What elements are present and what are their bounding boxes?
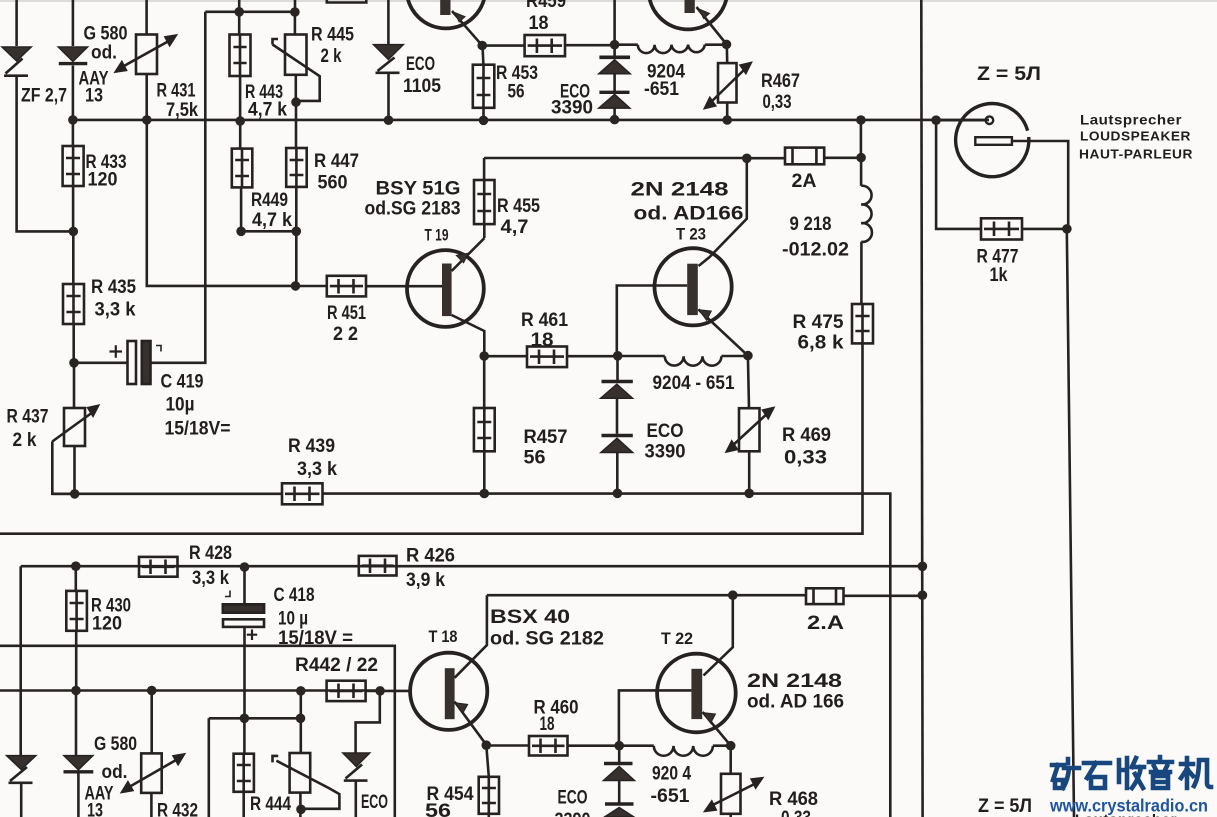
diode ECO3390d mid	[601, 436, 633, 453]
resistor R443	[230, 35, 251, 77]
svg-text:10µ: 10µ	[166, 395, 195, 416]
potentiometer R437	[52, 406, 98, 446]
transistor T19 circle	[407, 250, 484, 327]
svg-text:-651: -651	[644, 79, 679, 100]
svg-text:T 23: T 23	[676, 225, 706, 244]
capacitor C419	[110, 341, 162, 384]
svg-text:T 22: T 22	[661, 629, 693, 648]
svg-text:4,7 k: 4,7 k	[248, 100, 287, 121]
resistor R457	[474, 408, 495, 451]
node dots emitter bus y=45	[477, 41, 487, 51]
svg-text:56: 56	[425, 801, 451, 817]
diode ECO1105 wire top	[387, 0, 390, 44]
diode ECO3390c mid	[601, 382, 633, 399]
svg-text:G 580: G 580	[94, 734, 137, 755]
wire R444 column rail3 to wireA to box	[299, 691, 302, 753]
svg-text:ECO: ECO	[406, 54, 435, 75]
svg-text:18: 18	[529, 13, 549, 34]
svg-text:6,8 k: 6,8 k	[798, 333, 844, 354]
svg-text:18: 18	[531, 330, 554, 351]
node dot R477 right	[1062, 224, 1072, 234]
svg-text:R 428: R 428	[189, 543, 232, 564]
wire T18 collector bus y=595.2	[487, 594, 806, 597]
svg-text:R449: R449	[251, 190, 288, 211]
wire node to R437	[73, 363, 76, 408]
transistor T23 bar	[687, 264, 698, 315]
svg-text:od.: od.	[102, 762, 128, 783]
svg-text:HAUT-PARLEUR: HAUT-PARLEUR	[1079, 147, 1193, 162]
svg-text:R 447: R 447	[314, 151, 359, 172]
svg-text:0,33: 0,33	[781, 808, 811, 817]
transistor T19 emitter lead (top, arrow out)	[452, 238, 485, 271]
wire G580 column top	[72, 0, 75, 46]
svg-text:R457: R457	[524, 427, 568, 448]
svg-text:R 469: R 469	[782, 425, 831, 446]
wire node to R435	[72, 231, 75, 284]
wire R433 to node	[72, 186, 75, 231]
wire R461 node down to diode	[616, 356, 619, 381]
resistor R475	[852, 304, 873, 343]
wire R435 to C419 node	[72, 324, 75, 363]
svg-text:C 419: C 419	[161, 372, 204, 393]
wire 9218 column: rail to fuse node	[860, 120, 863, 158]
wire speaker rail right segment to terminal	[936, 119, 986, 122]
wire C418 col below wireA into R446	[243, 718, 246, 753]
resistor R446 (unlabeled)	[234, 754, 254, 792]
svg-text:920 4: 920 4	[652, 764, 691, 785]
wire R444 below box to bottom edge	[299, 793, 302, 817]
node dots lower rail3	[71, 686, 81, 696]
wire R432 to bottom edge	[150, 793, 153, 817]
potentiometer R444	[273, 753, 340, 809]
svg-text:R 426: R 426	[406, 546, 455, 567]
node dot C419	[69, 358, 79, 368]
svg-text:2N 2148: 2N 2148	[631, 180, 729, 201]
svg-text:2 k: 2 k	[321, 46, 342, 67]
wire R454 to bottom edge	[487, 814, 490, 817]
svg-text:18: 18	[540, 714, 555, 735]
wire R457 to bottom rail	[483, 451, 486, 493]
svg-text:1105: 1105	[403, 76, 441, 97]
resistor R454	[479, 777, 499, 814]
transistor T23 collector lead from 2A node	[699, 158, 747, 266]
svg-text:560: 560	[318, 173, 348, 194]
transistor T19 collector lead (bottom)	[452, 315, 485, 356]
transistor T17 emitter lead with arrow	[452, 11, 482, 45]
wire mid diodes to bottom rail	[616, 453, 619, 494]
wire R459 to ECO3390 node	[565, 44, 615, 47]
wire speaker rail y=120	[73, 119, 989, 122]
transistor T17 (cut at top): circle	[407, 0, 486, 28]
svg-text:4,7 k: 4,7 k	[252, 210, 292, 231]
wire fuse-node to coil, coil 9218	[861, 158, 872, 304]
node dots collector bus	[728, 590, 738, 600]
diode ECO3390e lower	[604, 764, 635, 781]
wire C419 feed column	[151, 12, 206, 363]
resistor R433	[63, 146, 84, 186]
wire ECO1105 to rail	[387, 73, 390, 120]
capacitor C418	[223, 567, 264, 640]
wire ZF2.7 column top	[15, 0, 18, 46]
node dots emitter bus lower	[482, 740, 492, 750]
wire corner down to R455	[483, 158, 486, 180]
wire R477 left feed	[936, 120, 981, 229]
wire long right vertical below R477 node	[1067, 229, 1074, 817]
svg-text:C 418: C 418	[274, 585, 315, 606]
wire rail to R449	[239, 121, 242, 148]
wire G580 to rail	[72, 66, 75, 121]
svg-text:od.: od.	[91, 43, 117, 64]
wire R454 column	[486, 745, 489, 777]
transistor T22 base wire L down to R460 node	[619, 690, 692, 745]
svg-text:R 444: R 444	[250, 794, 291, 815]
svg-text:-012.02: -012.02	[782, 240, 849, 261]
svg-text:G 580: G 580	[84, 24, 128, 45]
svg-text:R459: R459	[526, 0, 566, 12]
svg-text:ZF 2,7: ZF 2,7	[21, 86, 67, 107]
svg-text:R 435: R 435	[91, 277, 136, 298]
wire lower rail1 y=566	[21, 565, 923, 568]
resistor R459	[525, 35, 565, 56]
svg-text:3390: 3390	[551, 98, 593, 119]
wire R430 column from rail1	[75, 566, 78, 591]
wire lower zener to bottom edge	[20, 783, 23, 817]
potentiometer R467	[705, 63, 750, 108]
resistor R442	[327, 681, 366, 701]
glyph shou	[1119, 758, 1144, 788]
svg-text:15/18V =: 15/18V =	[278, 628, 353, 649]
transistor T18 collector lead	[455, 595, 487, 678]
wire R446 to bottom edge	[242, 792, 245, 817]
resistor R451	[327, 276, 366, 297]
resistor R460	[529, 736, 568, 756]
transistor T19 bar	[442, 264, 452, 317]
zener diode ECO1105	[374, 45, 404, 73]
inductor 9204-651 top	[615, 45, 727, 53]
node dot T23 collector	[742, 154, 752, 164]
glyph kuang	[1052, 759, 1079, 788]
resistor R430	[66, 591, 87, 631]
wire between ECO3390 diodes	[613, 74, 616, 92]
svg-text:3,3 k: 3,3 k	[192, 568, 229, 589]
wire R443 column top	[238, 0, 241, 35]
wire speaker bar to right drop	[1012, 141, 1068, 229]
wire between lower diodes	[618, 781, 621, 803]
resistor R453	[473, 65, 495, 108]
inductor 9204-651 lower	[619, 746, 731, 756]
wire T18 base node down and left to ECO bias diode	[356, 691, 380, 753]
svg-text:9204 - 651: 9204 - 651	[653, 373, 735, 394]
svg-text:4,7: 4,7	[501, 217, 529, 238]
diode G580 lower	[64, 756, 94, 772]
svg-text:56: 56	[508, 82, 525, 103]
inductor 9204-651 mid	[618, 356, 748, 366]
wire ECO3390 node top	[618, 746, 621, 763]
wire ECO3390 to rail	[613, 108, 616, 119]
diode ECO3390b upper	[599, 92, 630, 108]
transistor T22 circle	[657, 654, 736, 733]
wire R445-wiper node down to R447	[295, 102, 298, 148]
transistor T19 base wire from R451	[366, 285, 442, 288]
potentiometer R445	[273, 35, 320, 101]
svg-text:2N 2148: 2N 2148	[747, 671, 842, 692]
wire R432 column rail3 down	[150, 691, 153, 754]
svg-text:3,3 k: 3,3 k	[95, 300, 136, 321]
wire T22 emitter node down to R468	[729, 746, 732, 774]
wire R455 to T19 collector corner	[483, 224, 486, 238]
svg-text:Z = 5Л: Z = 5Л	[978, 796, 1032, 817]
svg-text:od. AD 166: od. AD 166	[747, 692, 844, 713]
transistor T23 circle	[655, 248, 732, 325]
loudspeaker symbol	[956, 104, 1029, 177]
zener diode ECO (lower bias, near R444)	[343, 753, 370, 781]
node dots y=231	[69, 227, 79, 237]
svg-text:2.A: 2.A	[807, 613, 844, 634]
resistor R439	[282, 483, 323, 504]
zener ZF2,7	[2, 47, 31, 76]
svg-text:R 432: R 432	[157, 801, 198, 817]
fuse 2A lower	[806, 588, 922, 604]
svg-text:1k: 1k	[990, 265, 1008, 286]
svg-text:LOUDSPEAKER: LOUDSPEAKER	[1080, 129, 1191, 144]
transistor T18 bar	[445, 668, 455, 719]
node dots top bus	[234, 7, 244, 17]
wire T17 node to R459	[482, 44, 525, 47]
potentiometer R431	[116, 35, 176, 75]
wire R445 main below box	[294, 75, 297, 102]
svg-text:3,3 k: 3,3 k	[297, 459, 337, 480]
transistor T21 bar	[685, 0, 695, 13]
svg-text:120: 120	[92, 614, 122, 635]
resistor R455	[474, 180, 495, 224]
wire R437 to bottom rail	[73, 446, 76, 494]
svg-text:3390: 3390	[555, 810, 591, 817]
node dot fuse right	[856, 153, 866, 163]
svg-text:od.SG 2183: od.SG 2183	[365, 199, 461, 220]
wire R442 right to T18 base node, base wire	[366, 690, 411, 693]
svg-text:ECO: ECO	[647, 421, 684, 442]
glyph shi	[1084, 763, 1110, 788]
watermark CJK (vector strokes: 矿石收音机)	[1052, 757, 1211, 788]
transistor T22 emitter lead (arrow toward bar)	[703, 712, 731, 746]
node dot R445 wiper	[291, 97, 301, 107]
svg-text:13: 13	[85, 86, 103, 107]
potentiometer R469	[727, 408, 773, 451]
wire T21 node down to R467	[725, 44, 728, 63]
wire T23emitter node down to R469	[748, 356, 749, 409]
svg-text:od. AD166: od. AD166	[634, 204, 744, 225]
potentiometer R468	[706, 774, 762, 814]
wire R437 wiper down to rail start	[52, 442, 75, 494]
transistor T18 emitter lead (arrow toward bar)	[455, 702, 487, 745]
svg-text:R 437: R 437	[7, 407, 49, 428]
wire ZF2.7 bottom L to node	[17, 76, 69, 231]
transistor T23 base wire L down to R461 node	[617, 286, 687, 356]
wire lower rail2 y=645.8	[0, 646, 395, 817]
potentiometer R432	[122, 753, 183, 793]
svg-text:R 451: R 451	[327, 303, 366, 324]
svg-text:R 468: R 468	[769, 789, 818, 810]
wire from top edge down to R459 node	[613, 0, 616, 57]
wire C418 down to wireA	[243, 627, 246, 718]
wire ECO bias diode to bottom edge	[354, 781, 357, 817]
svg-text:R 461: R 461	[521, 310, 568, 331]
fuse 2A upper	[747, 148, 861, 165]
wire bottom rail of upper amp	[52, 494, 890, 817]
svg-text:T 18: T 18	[429, 627, 458, 646]
wire R445 column top	[294, 0, 297, 35]
svg-text:9 218: 9 218	[790, 214, 832, 235]
wire fuse node down to T22 collector	[704, 595, 733, 675]
svg-text:R 431: R 431	[157, 81, 196, 102]
diode ECO3390a upper	[599, 57, 630, 74]
svg-text:0,33: 0,33	[784, 448, 827, 469]
transistor T17 bar	[440, 0, 450, 15]
wire R477 right to node	[1022, 228, 1067, 231]
wire wireA left corner down to edge	[208, 718, 211, 817]
transistor T23 emitter lead (arrow toward bar)	[699, 310, 748, 356]
wire T18 emitter node to R460	[486, 744, 529, 747]
wire R467 to rail	[726, 103, 729, 121]
svg-text:Lautsprecher: Lautsprecher	[1080, 112, 1182, 128]
svg-text:R 455: R 455	[497, 196, 540, 217]
resistor R435	[63, 284, 84, 324]
wire rail1 left corner down to lower zener	[19, 566, 22, 755]
svg-text:120: 120	[88, 170, 118, 191]
wire R431 column top	[145, 0, 148, 35]
wire G580 lower to bottom edge	[77, 772, 80, 817]
zener ZF lower	[7, 756, 36, 783]
svg-text:3,9 k: 3,9 k	[406, 570, 445, 591]
svg-text:-651: -651	[651, 786, 690, 807]
resistor R477	[981, 218, 1022, 239]
wire R469 to bottom rail	[748, 451, 751, 493]
wire G580 lower column rail3 to diode	[75, 691, 78, 756]
diode ECO3390f lower (cut)	[605, 804, 634, 817]
node dots bottom rail	[70, 489, 80, 499]
wire R475 down, corner, long line left to x=0	[0, 343, 863, 533]
node dot R451 left	[291, 281, 301, 291]
wire between mid diodes	[616, 398, 619, 434]
svg-text:ECO: ECO	[558, 788, 588, 809]
wire C419 left to node	[75, 361, 128, 364]
svg-text:3390: 3390	[645, 442, 686, 463]
node dots lower rail1	[71, 561, 81, 571]
svg-text:T 19: T 19	[425, 226, 449, 245]
wire R430 to rail3	[75, 631, 78, 691]
svg-text:2 k: 2 k	[13, 430, 37, 451]
wire R447 to node	[295, 187, 298, 231]
glyph yin	[1149, 757, 1172, 788]
transistor T21 emitter lead with arrow	[697, 7, 727, 44]
wire R460 to node	[568, 744, 620, 747]
wire lower rail3 y=690.5 (base bus)	[0, 689, 380, 692]
resistor R428	[139, 557, 178, 577]
wire R443 to rail	[239, 76, 242, 121]
wire R468 to bottom edge	[729, 814, 732, 817]
wire long output vertical x=921	[921, 0, 922, 817]
svg-text:56: 56	[524, 448, 546, 469]
svg-text:R 475: R 475	[793, 312, 844, 333]
svg-text:BSX 40: BSX 40	[490, 607, 570, 628]
svg-text:od. SG 2182: od. SG 2182	[490, 629, 604, 650]
resistor R449	[232, 149, 253, 188]
wire wireA y=718.3	[209, 717, 301, 720]
resistor R441 (cut at top edge)	[327, 0, 367, 3]
svg-text:R 445: R 445	[311, 25, 354, 46]
svg-text:ECO: ECO	[361, 792, 388, 813]
wire R453 to rail	[482, 108, 485, 121]
svg-text:R 439: R 439	[288, 436, 335, 457]
svg-text:R467: R467	[761, 71, 800, 92]
wire emitter bus y=158	[484, 157, 747, 160]
transistor T18 circle	[410, 653, 487, 730]
svg-text:BSY 51G: BSY 51G	[376, 179, 461, 200]
svg-text:Z = 5Л: Z = 5Л	[977, 64, 1041, 85]
node dots R461 row	[479, 351, 489, 361]
wire R461 left node column (R457)	[483, 356, 486, 408]
resistor R426	[359, 556, 397, 576]
wire R451 left lead	[296, 285, 327, 288]
transistor T22 bar	[691, 669, 702, 719]
node dot R444 bottom	[296, 805, 306, 815]
wire R431 column rail to base-wire corner	[147, 120, 296, 286]
resistor R461	[484, 347, 618, 368]
wire R453 top	[481, 46, 484, 65]
svg-text:7,5k: 7,5k	[166, 100, 198, 121]
svg-text:2 2: 2 2	[333, 324, 358, 345]
svg-text:15/18V=: 15/18V=	[165, 419, 231, 440]
wire R431 to rail	[145, 74, 148, 120]
svg-text:10 µ: 10 µ	[278, 609, 308, 630]
diode G580	[58, 47, 87, 64]
svg-text:2A: 2A	[792, 171, 817, 192]
node dots wireA	[240, 714, 250, 724]
wire rail to R433	[72, 120, 75, 146]
transistor T21 (cut at top): circle	[649, 0, 728, 29]
svg-text:www.crystalradio.cn: www.crystalradio.cn	[1049, 796, 1208, 816]
wire top bus y=11.8	[205, 11, 294, 14]
wire R449 bottom L to node	[241, 187, 296, 231]
svg-text:0,33: 0,33	[763, 92, 792, 113]
glyph ji	[1181, 758, 1211, 788]
svg-text:R442 / 22: R442 / 22	[295, 655, 378, 676]
resistor R447	[286, 148, 307, 187]
wire node to R451 junction	[295, 231, 298, 286]
svg-text:13: 13	[87, 801, 103, 817]
